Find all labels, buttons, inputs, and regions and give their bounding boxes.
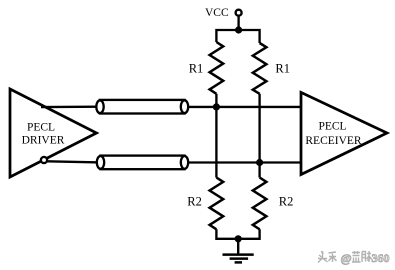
ground symbol xyxy=(223,255,254,263)
svg-text:@: @ xyxy=(341,251,352,265)
resistor R2 (left) xyxy=(187,178,223,230)
wire: bottom bus xyxy=(216,229,259,239)
条 xyxy=(329,252,337,262)
豚 xyxy=(362,251,372,262)
svg-text:RECEIVER: RECEIVER xyxy=(305,135,362,147)
transmission line TL1 (top) xyxy=(96,100,188,114)
头 xyxy=(318,251,328,263)
VCC terminal circle xyxy=(236,10,242,16)
svg-text:PECL: PECL xyxy=(27,121,55,133)
svg-text:R1: R1 xyxy=(275,62,290,76)
node A junction dot xyxy=(213,103,220,110)
wire: VCC stem xyxy=(237,16,239,31)
svg-text:R1: R1 xyxy=(189,62,204,76)
node VCC junction dot xyxy=(235,26,242,33)
svg-text:R2: R2 xyxy=(279,195,294,209)
PECL driver A1 xyxy=(10,89,97,177)
node B junction dot xyxy=(256,159,263,166)
resistor R1 (right) xyxy=(253,43,290,94)
watermark 头条 @蓝豚360 xyxy=(318,251,390,265)
svg-text:PECL: PECL xyxy=(318,120,346,132)
wire: TL1 to receiver input (top line) xyxy=(188,106,301,108)
PECL receiver A2 xyxy=(301,92,387,174)
wire: left rail (R1 to R2 through node A) xyxy=(215,94,217,178)
node GND junction dot xyxy=(235,235,242,242)
wire: right rail (R1 to R2 through node B) xyxy=(258,94,260,178)
resistor R2 (right) xyxy=(253,178,294,230)
wire: top bus xyxy=(216,30,259,43)
svg-text:360: 360 xyxy=(372,251,390,265)
蓝 xyxy=(352,251,361,262)
svg-text:DRIVER: DRIVER xyxy=(22,135,65,147)
inversion bubble on driver inverting output xyxy=(41,157,47,163)
transmission line TL2 (bottom) xyxy=(97,156,188,170)
wire: driver output to TL1 xyxy=(41,106,100,109)
wire: ground stem xyxy=(237,239,239,254)
svg-text:VCC: VCC xyxy=(205,7,229,19)
wire: TL2 to receiver input (bottom line) xyxy=(188,161,301,163)
svg-text:R2: R2 xyxy=(187,195,202,209)
wire: driver inverting output to TL2 xyxy=(47,161,101,162)
resistor R1 (left) xyxy=(189,42,223,94)
